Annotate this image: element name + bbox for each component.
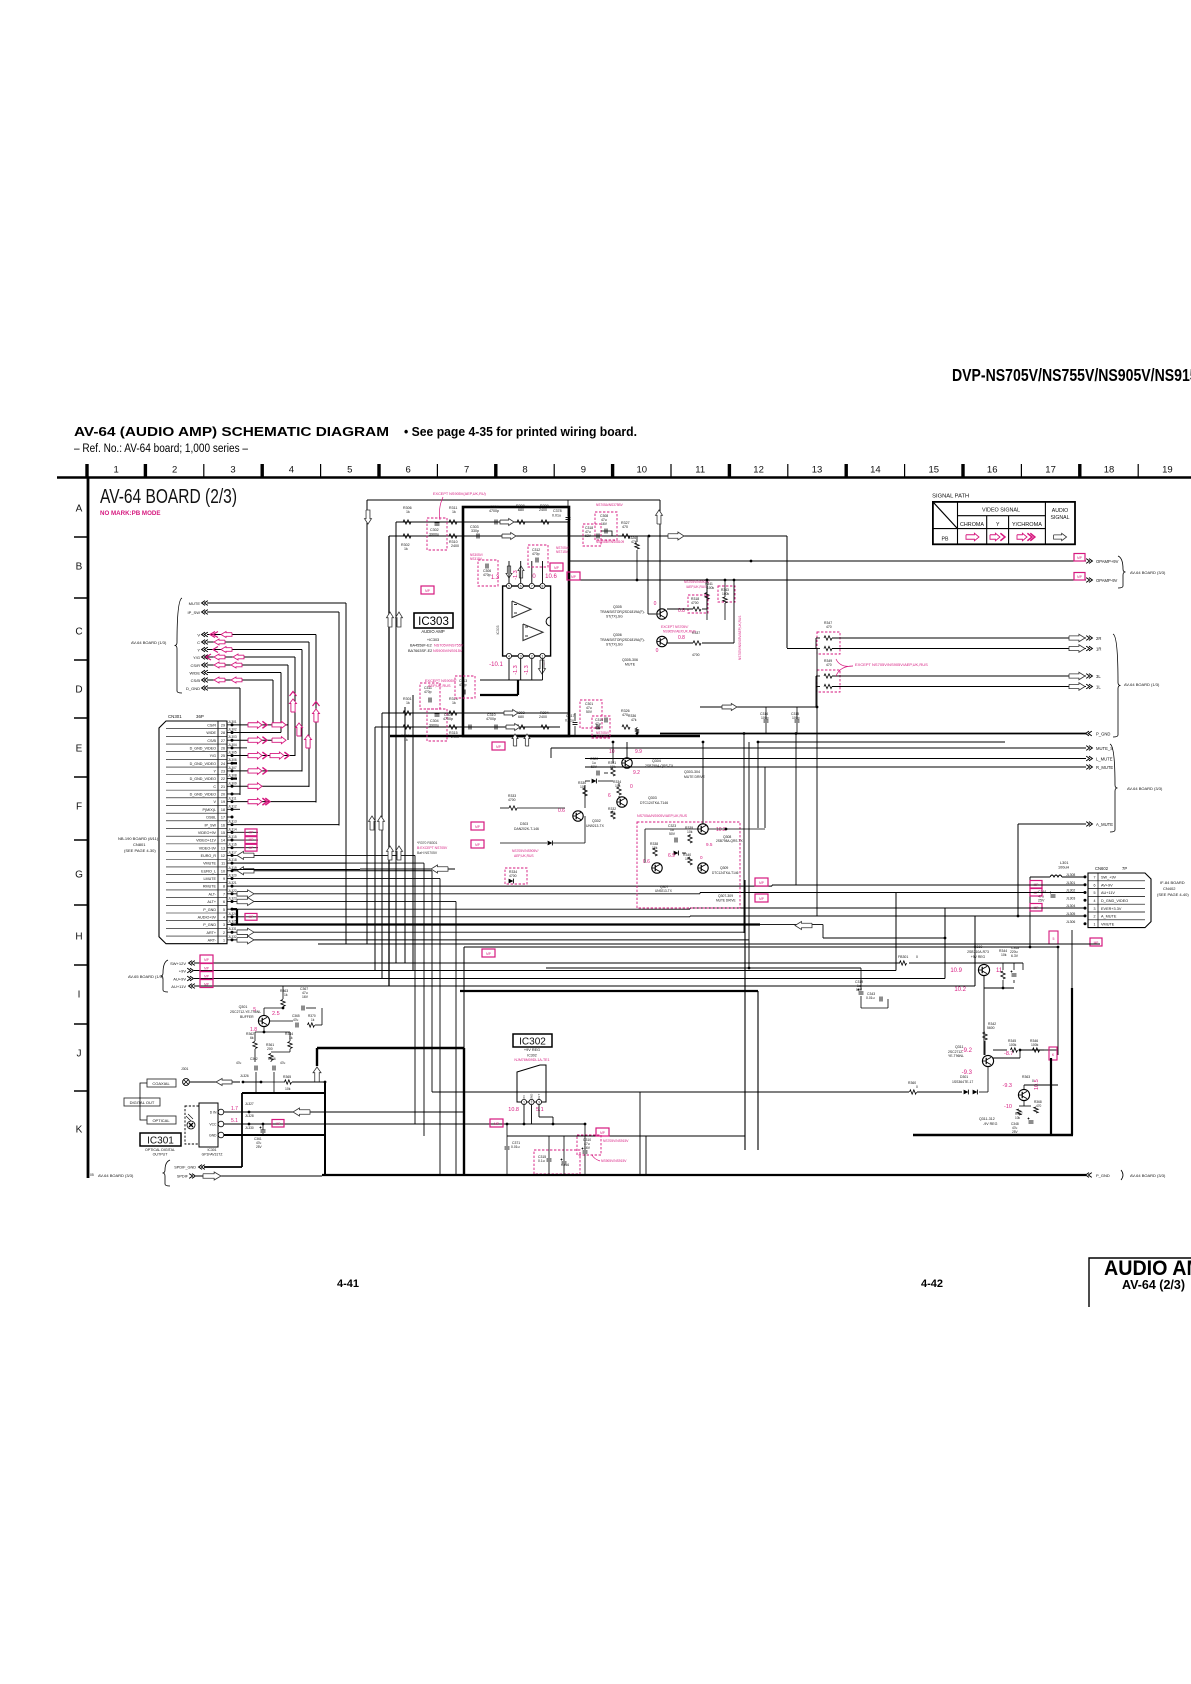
wire Y [207,649,302,651]
svg-text:IP_SW: IP_SW [188,610,201,615]
diode D302 [592,779,597,784]
svg-text:7: 7 [1094,876,1096,880]
svg-text:JL312: JL312 [228,804,237,808]
svg-text:22: 22 [221,777,225,781]
svg-text:JL325: JL325 [228,920,237,924]
transistor Q301 [258,1015,269,1026]
svg-text:1k: 1k [289,1036,293,1040]
svg-text:COAXIAL: COAXIAL [152,1081,170,1086]
svg-text:+IC303: +IC303 [427,638,439,642]
svg-text:7: 7 [464,465,469,476]
svg-text:470p: 470p [483,573,491,577]
svg-text:10k: 10k [687,830,693,834]
svg-text:10: 10 [221,869,225,873]
svg-text:2SB798A-QRS-TX: 2SB798A-QRS-TX [716,839,743,843]
svg-text:V: V [197,632,200,637]
svg-text:Q306: Q306 [613,633,622,637]
svg-text:0.8: 0.8 [678,635,685,641]
svg-text:JL307: JL307 [228,766,237,770]
svg-text:47u: 47u [280,1061,286,1065]
svg-text:-9V REG: -9V REG [983,1122,998,1126]
svg-text:15: 15 [929,465,940,476]
svg-text:VIDEO+9V: VIDEO+9V [198,831,217,835]
MP tags center [471,822,484,830]
svg-text:ALT-: ALT- [208,892,216,896]
svg-text:Y: Y [197,647,200,652]
capacitor C302 dashed [427,518,447,550]
svg-text:NS905V/NS915V: NS905V/NS915V [433,649,463,653]
arrow chevrons on left group wires [221,632,232,638]
svg-text:P(MIX)L: P(MIX)L [202,808,216,812]
white arrows on bus [369,816,376,830]
svg-text:0.1u: 0.1u [538,1159,545,1163]
svg-text:MP: MP [425,589,430,593]
svg-text:NS705V/NS905V/AEP,UK,RUS: NS705V/NS905V/AEP,UK,RUS [738,616,742,660]
wire MUTE [207,602,346,604]
svg-text:IC302: IC302 [519,1037,546,1048]
transistor Q305 [657,609,667,619]
svg-text:470p: 470p [459,683,467,687]
svg-text:Q302: Q302 [592,819,601,823]
svg-text:25V: 25V [1012,1130,1019,1134]
svg-text:PB: PB [942,537,949,543]
svg-text:21: 21 [221,785,225,789]
svg-text:200: 200 [267,1047,273,1051]
IC303 label box [414,613,453,628]
wires q301 top [263,1008,265,1015]
svg-text:16: 16 [221,823,225,827]
svg-text:MUTE: MUTE [189,601,201,606]
brace AV-64 board 3/3 top [1118,556,1126,588]
wires mute2 [702,742,704,824]
op-amp B [523,624,543,641]
resistor R343 dashed [718,586,735,602]
svg-text:Y/G: Y/G [193,655,200,660]
svg-text:NJM78M09DL1A-TE1: NJM78M09DL1A-TE1 [514,1058,549,1062]
svg-text:R363: R363 [1022,1075,1030,1079]
pink arrows CN301 [248,721,262,728]
svg-text:VMUTE: VMUTE [203,862,216,866]
svg-text:D IN: D IN [210,1111,217,1115]
svg-text:19: 19 [1162,465,1173,476]
svg-text:NS705V/NS755V: NS705V/NS755V [434,644,464,648]
capacitor C318 dashed [583,524,601,546]
svg-text:6: 6 [1094,883,1096,887]
svg-text:UN9213-TX: UN9213-TX [586,824,605,828]
svg-text:JL317: JL317 [228,850,237,854]
resistor R318 dashed [688,595,708,613]
IC303 pin wires bottom [508,659,510,680]
svg-text:4700p: 4700p [443,717,453,721]
svg-text:4: 4 [289,465,294,476]
svg-text:JL301: JL301 [228,720,237,724]
svg-text:9: 9 [223,877,225,881]
svg-text:SIGNAL: SIGNAL [1050,515,1069,521]
svg-text:IC303: IC303 [496,625,500,634]
svg-text:WIDE: WIDE [190,670,201,675]
CN301 row wires [232,724,288,726]
svg-text:MP: MP [496,745,501,749]
white arrows left of IC303 label [387,612,394,627]
wires q301 mid [270,1020,292,1022]
capacitor C308 dashed [595,512,617,540]
svg-text:4700p: 4700p [486,717,496,721]
svg-text:MP: MP [204,982,209,986]
svg-text:AV-64 BOARD (2/3): AV-64 BOARD (2/3) [100,486,237,508]
svg-text:JL303: JL303 [228,735,237,739]
svg-text:12: 12 [753,465,764,476]
connector OPAMP+9V [1089,559,1092,564]
svg-text:0: 0 [916,1085,918,1089]
IC301 pins [218,1109,224,1115]
MP tag ic301 [272,1120,284,1128]
svg-text:AUDIO AMP: AUDIO AMP [1104,1257,1191,1280]
svg-text:I: I [78,990,81,1001]
svg-text:2400: 2400 [451,735,459,739]
svg-text:IC301: IC301 [207,1148,216,1152]
IC302 label box [513,1034,552,1047]
svg-text:LMUTE: LMUTE [204,877,217,881]
row2 row1 long wires [232,931,744,933]
svg-text:Q305: Q305 [613,605,622,609]
svg-text:DSBL: DSBL [206,816,216,820]
svg-text:NB-190 BOARD (8/11): NB-190 BOARD (8/11) [118,836,159,841]
svg-text:10.9: 10.9 [950,968,962,974]
svg-text:28: 28 [221,731,225,735]
svg-text:3: 3 [230,465,235,476]
wire coaxial [190,1081,240,1083]
connector R_MUTE [1089,765,1092,770]
svg-text:27: 27 [221,739,225,743]
svg-text:50V: 50V [595,726,602,730]
svg-text:2400: 2400 [451,544,459,548]
wire CS/R [207,664,288,666]
svg-text:6: 6 [520,585,522,589]
wires Q305/6 to right [667,613,692,615]
CN301 pin junctions and stub wires [227,724,232,726]
thick vert x325 [324,1082,326,1175]
svg-text:C362: C362 [250,1057,258,1061]
MP tags near IC303 [550,563,563,571]
svg-text:0: 0 [916,955,918,959]
svg-text:C304: C304 [430,719,439,723]
svg-text:4700: 4700 [508,798,516,802]
svg-text:(SEE PAGE 4-30): (SEE PAGE 4-30) [124,848,156,853]
wire V [207,634,316,636]
svg-text:IC301: IC301 [147,1136,174,1147]
vertical q310 down [983,988,985,1055]
white arrows CN301 [237,851,254,859]
svg-text:AEP,UK,RUS: AEP,UK,RUS [514,854,534,858]
MP tag ic302 [490,1119,503,1127]
wire vcc [249,1123,585,1125]
svg-text:MUTE DRIVE: MUTE DRIVE [684,775,706,779]
svg-text:8: 8 [542,585,544,589]
svg-text:1k: 1k [452,510,456,514]
svg-text:VCC: VCC [209,1123,217,1127]
label COAXIAL [147,1079,176,1087]
thick corner x317 [317,1047,464,1049]
svg-text:AV+9V: AV+9V [1101,883,1113,887]
IC301 label box [140,1133,181,1146]
wire y1092 [432,1091,909,1093]
svg-text:17: 17 [1045,465,1056,476]
junction a_mute [1017,915,1020,918]
vertical x1058 [1057,947,1059,1055]
svg-text:19: 19 [221,800,225,804]
svg-text:12: 12 [221,854,225,858]
svg-text:4-42: 4-42 [921,1278,943,1290]
footer section box [1089,1258,1191,1307]
svg-text:10k: 10k [1001,953,1007,957]
svg-text:Q303: Q303 [648,796,657,800]
wire input A [396,521,568,523]
pink tag K [1049,1047,1057,1060]
svg-text:G: G [75,870,83,881]
svg-text:1: 1 [223,938,225,942]
svg-text:NS715V: NS715V [596,735,609,739]
svg-text:SIGNAL PATH: SIGNAL PATH [932,494,969,500]
svg-text:JL320: JL320 [228,873,237,877]
brace spdif [163,1160,171,1186]
svg-text:4: 4 [508,655,510,659]
svg-text:D_GND_VIDEO: D_GND_VIDEO [190,762,217,766]
svg-text:(SEE PAGE 4-40): (SEE PAGE 4-40) [1157,892,1189,897]
svg-text:1: 1 [542,655,544,659]
svg-text:330p: 330p [471,529,479,533]
svg-text:05: 05 [90,1173,94,1177]
wire 3L [832,675,1086,677]
svg-text:Q304: Q304 [652,759,661,763]
left frame border [87,477,90,1178]
svg-text:50V: 50V [669,832,676,836]
svg-text:MP: MP [1077,556,1082,560]
svg-text:D_GND_VIDEO: D_GND_VIDEO [190,746,217,750]
op-amp A [512,601,531,618]
capacitor C301 dashed [427,709,447,741]
svg-text:NS908BV/NS08109: NS908BV/NS08109 [596,540,624,544]
capacitor C311 dashed [420,683,440,709]
svg-text:1: 1 [114,465,119,476]
verticals center-right [743,734,745,934]
wire 1L [832,686,1086,688]
svg-text:1SS364TE-17: 1SS364TE-17 [952,1080,973,1084]
svg-text:BUFFER: BUFFER [240,1015,254,1019]
bus vertical [388,536,390,986]
svg-text:K: K [76,1125,83,1136]
svg-text:NS705A/NS375BV: NS705A/NS375BV [596,503,624,507]
svg-text:26: 26 [221,746,225,750]
transistor Q309 [652,863,662,873]
svg-text:10: 10 [637,465,648,476]
svg-text:NS705V/NS915V: NS705V/NS915V [603,1139,629,1143]
svg-text:ST(TX),SG: ST(TX),SG [606,615,623,619]
svg-text:1k: 1k [406,701,410,705]
svg-text:AUDIO+9V: AUDIO+9V [198,915,217,919]
svg-text:5.1: 5.1 [536,1107,544,1113]
connector OPAMP-9V [1089,578,1092,583]
transistor Q312 [1018,1089,1029,1100]
svg-text:MP: MP [276,1122,281,1126]
svg-text:6: 6 [608,793,611,799]
connector A_MUTE [1089,822,1092,827]
wire D_GND [207,687,240,689]
svg-text:MP: MP [554,566,559,570]
svg-text:2: 2 [223,931,225,935]
svg-text:JL309: JL309 [228,781,237,785]
svg-text:J301: J301 [181,1067,188,1071]
svg-text:11: 11 [221,862,225,866]
svg-text:2SC2712-YE-T96NL: 2SC2712-YE-T96NL [230,1010,261,1014]
svg-text:JL332: JL332 [228,935,237,939]
connector L_MUTE [1089,756,1092,761]
white arrow din [293,1108,310,1116]
svg-text:1k: 1k [284,993,288,997]
svg-text:SW+12V: SW+12V [170,961,186,966]
wire row11 arrow run [232,869,360,871]
junction [648,535,651,538]
svg-text:NS315V: NS315V [470,557,483,561]
svg-text:1: 1 [1094,922,1096,926]
svg-text:EXCEPT NS905V/: EXCEPT NS905V/ [425,679,457,683]
svg-text:TRANSISTOR(2SD1819A(F)-: TRANSISTOR(2SD1819A(F)- [600,610,645,614]
svg-text:CHROMA: CHROMA [960,522,985,528]
svg-text:– Ref. No.: AV-64 board; 1,000: – Ref. No.: AV-64 board; 1,000 series – [74,441,248,455]
svg-text:JL328: JL328 [245,1114,254,1118]
svg-text:23: 23 [221,770,225,774]
AV65 risers [895,893,897,971]
svg-text:L301: L301 [1060,861,1068,865]
svg-text:13: 13 [221,846,225,850]
svg-text:680: 680 [518,715,524,719]
svg-text:63V: 63V [585,534,592,538]
grid ruler top line [57,476,1191,479]
svg-text:A_MUTE: A_MUTE [1101,915,1117,919]
svg-text:B:EXCEPT NS705V: B:EXCEPT NS705V [417,846,448,850]
svg-text:D301: D301 [960,1075,968,1079]
svg-text:VMUTE: VMUTE [1101,922,1115,926]
svg-text:EXCEPT NS905V(AEP,UK,RU): EXCEPT NS905V(AEP,UK,RU) [433,492,487,496]
MP tags AV-65 [200,955,213,963]
svg-text:2400: 2400 [539,508,547,512]
svg-text:ALT+: ALT+ [207,900,216,904]
svg-text:10.6: 10.6 [545,574,557,580]
svg-text:5: 5 [1053,937,1055,941]
svg-text:P_GND: P_GND [1096,1173,1110,1178]
svg-text:JL314: JL314 [228,827,237,831]
svg-text:IP_SW: IP_SW [205,823,217,827]
svg-text:0: 0 [630,784,633,790]
svg-text:CS/B: CS/B [191,678,201,683]
svg-text:18: 18 [1104,465,1115,476]
svg-text:CS/R: CS/R [207,723,216,727]
svg-text:C378: C378 [553,509,562,513]
svg-text:P_GND: P_GND [1096,731,1110,736]
svg-text:JL330: JL330 [245,1126,254,1130]
svg-text:2: 2 [172,465,177,476]
wire MUTE_S [551,747,1086,749]
MP tags CN301 [245,829,257,836]
svg-text:470p: 470p [532,552,540,556]
bracket digital out [140,1083,147,1120]
svg-text:6: 6 [406,465,411,476]
svg-text:1: 1 [523,1100,525,1104]
svg-text:100k: 100k [1031,1043,1039,1047]
wires into CN602 [772,884,1085,886]
diode D304 [674,851,679,856]
svg-text:C302: C302 [430,528,439,532]
svg-text:IC303: IC303 [418,616,449,628]
brace AV-64 board 1/3 [1113,634,1121,737]
svg-text:C366: C366 [268,1057,276,1061]
svg-text:F: F [76,802,82,813]
svg-text:3: 3 [520,655,522,659]
svg-text:D: D [75,685,82,696]
svg-text:JL308: JL308 [1066,873,1075,877]
wire left arrow [360,868,455,870]
IC303 outer frame [463,507,569,736]
svg-text:1k: 1k [311,1018,315,1022]
svg-text:D_GND_VIDEO: D_GND_VIDEO [190,793,217,797]
wire OPAMP+9V [568,560,1086,562]
wire y1136 [507,1135,745,1137]
grid ruler ticks and numbers [85,464,88,477]
capacitor C310b dashed [577,1135,601,1155]
svg-text:C: C [75,627,82,638]
long row wires to right side [232,854,415,856]
svg-text:4: 4 [223,915,225,919]
svg-text:Q309: Q309 [720,866,728,870]
svg-text:470: 470 [1036,1104,1042,1108]
svg-text:4700p: 4700p [489,509,499,513]
junction [750,560,753,563]
svg-text:5: 5 [508,585,510,589]
svg-text:AV-64 BOARD (1/3): AV-64 BOARD (1/3) [1124,682,1160,687]
wire OPAMP-9V [568,579,1086,581]
svg-text:JL318: JL318 [228,858,237,862]
svg-text:E: E [76,744,83,755]
thick P_GND row3 wire [232,923,760,925]
svg-text:L_MUTE: L_MUTE [1096,756,1113,761]
svg-text:16: 16 [987,465,998,476]
svg-text:MP: MP [475,825,480,829]
svg-text:100p: 100p [792,716,800,720]
svg-text:4700: 4700 [692,653,700,657]
svg-text:OUTPUT: OUTPUT [153,1153,169,1157]
svg-text:MP: MP [600,1131,605,1135]
svg-text:R_MUTE: R_MUTE [1096,765,1113,770]
svg-text:OPTICAL: OPTICAL [152,1118,170,1123]
svg-text:NS905V/AEP,UK,RUS: NS905V/AEP,UK,RUS [663,630,697,634]
white arrow spdif [203,1172,221,1180]
svg-text:MP: MP [204,958,209,962]
svg-text:JL308: JL308 [228,774,237,778]
svg-text:5600: 5600 [987,1026,995,1030]
svg-text:0.6: 0.6 [558,808,565,814]
svg-text:13: 13 [812,465,823,476]
white arrow y707 [722,704,737,711]
resistor R334b dashed [505,868,527,884]
white arrow up near R327 [656,510,663,524]
IC301 device [185,1106,199,1144]
svg-text:0.01u: 0.01u [565,719,574,723]
svg-text:AV-64 BOARD (1/3): AV-64 BOARD (1/3) [131,640,167,645]
svg-text:EXCEPT NS705V/NS905V/AEP,UK,RU: EXCEPT NS705V/NS905V/AEP,UK,RUS [855,662,928,667]
svg-text:3: 3 [223,923,225,927]
svg-text:JL304: JL304 [228,743,237,747]
svg-text:9: 9 [581,465,586,476]
svg-text:SPDIF_GND: SPDIF_GND [174,1166,196,1170]
